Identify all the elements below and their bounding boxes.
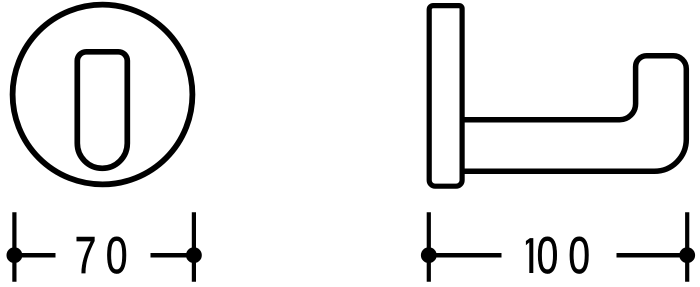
dimension 100: left leader segment [429, 253, 502, 258]
rosette circle (front view) [13, 5, 193, 185]
hook slot (front view of hook arm) [77, 52, 127, 169]
wall plate (side view) [429, 6, 462, 187]
dimension 100: label digit 1 [526, 238, 533, 273]
dimension 70: left dot [6, 247, 22, 263]
hook arm profile (side view) [460, 56, 686, 172]
dimension 100: right dot [679, 247, 695, 263]
dimension 100: left extension line [427, 212, 431, 281]
dimension 100: right leader segment [617, 253, 688, 258]
svg-text:0: 0 [568, 227, 590, 285]
dimension 70: right extension line [192, 212, 196, 281]
dimension 100: left dot [421, 247, 437, 263]
svg-text:0: 0 [537, 227, 559, 285]
dimension 100: right extension line [685, 212, 689, 281]
dimension 70: left extension line [12, 212, 16, 281]
svg-text:7: 7 [75, 227, 97, 285]
svg-text:0: 0 [106, 227, 128, 285]
dimension 70: right dot [186, 247, 202, 263]
dimension 70: right leader segment [151, 253, 194, 258]
dimension 70: left leader segment [14, 253, 55, 258]
